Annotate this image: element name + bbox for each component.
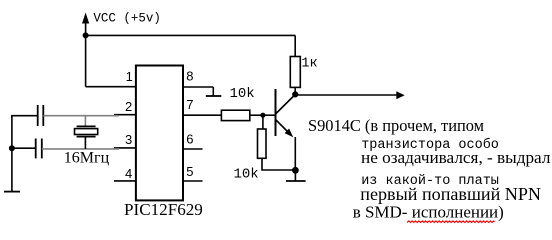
node emitter ground junction — [292, 167, 299, 174]
svg-text:7: 7 — [186, 97, 193, 112]
wire 1k top lead — [294, 35, 296, 56]
node base junction — [260, 113, 265, 118]
ground left — [4, 191, 20, 193]
ground pin 8 — [206, 87, 222, 96]
resistor R2 10k base — [221, 110, 249, 120]
svg-text:не озадачивался, - выдрал: не озадачивался, - выдрал — [361, 148, 551, 167]
svg-text:1к: 1к — [301, 56, 317, 71]
pin 2 stub — [114, 114, 136, 116]
svg-text:S9014C (в прочем, типом: S9014C (в прочем, типом — [308, 116, 484, 135]
wire VCC vertical to pin1 — [85, 35, 87, 86]
wire R3 bottom lead — [262, 158, 295, 170]
svg-text:5: 5 — [186, 164, 193, 179]
pin 7 stub — [183, 114, 221, 116]
svg-text:в SMD- исполнении): в SMD- исполнении) — [353, 203, 504, 222]
ground emitter — [286, 170, 306, 181]
svg-text:3: 3 — [125, 132, 132, 147]
wire C1 to pin 2 grey — [43, 115, 119, 117]
wire to C2 — [12, 147, 36, 149]
wire R3 top lead — [262, 115, 264, 129]
svg-text:первый попавший NPN: первый попавший NPN — [360, 184, 541, 204]
transistor Q1 base bar — [275, 89, 277, 136]
wire output with arrow — [295, 91, 405, 99]
wire to C1 — [11, 115, 38, 117]
wire VCC horizontal rail — [85, 34, 295, 36]
wire R2 to base node — [250, 114, 263, 116]
pin 5 stub — [183, 180, 203, 182]
wire emitter down — [294, 137, 296, 170]
pin 3 stub — [114, 147, 136, 149]
power symbol VCC arrow — [82, 13, 89, 36]
svg-text:2: 2 — [125, 99, 132, 114]
svg-text:PIC12F629: PIC12F629 — [124, 200, 203, 219]
svg-text:10k: 10k — [234, 167, 259, 183]
transistor Q1 emitter with arrow — [276, 120, 293, 137]
IC U1 PIC12F629 body — [136, 66, 183, 201]
svg-text:VCC (+5v): VCC (+5v) — [93, 12, 161, 26]
node collector junction — [292, 91, 298, 97]
crystal X1 — [75, 126, 98, 136]
pin 4 stub — [114, 180, 136, 182]
svg-text:16Мгц: 16Мгц — [64, 150, 110, 167]
svg-text:6: 6 — [186, 132, 193, 147]
capacitor C2 — [36, 139, 42, 159]
resistor R1 1k — [290, 57, 300, 88]
wire crystal top lead grey — [84, 116, 86, 127]
wire 1k bottom lead — [294, 87, 296, 94]
svg-text:4: 4 — [125, 166, 132, 181]
wire base node to transistor — [263, 114, 276, 116]
pin 8 stub — [183, 86, 213, 88]
transistor Q1 collector — [276, 95, 295, 114]
wire crystal bottom lead — [84, 137, 86, 149]
svg-text:10k: 10k — [230, 86, 255, 102]
wire C2 to pin 3 grey — [42, 148, 119, 150]
wire pin 1 to VCC — [86, 86, 136, 88]
pin 6 stub — [183, 148, 203, 150]
capacitor C1 — [38, 105, 44, 126]
resistor R3 10k — [258, 129, 267, 158]
node VCC junction — [83, 32, 89, 38]
svg-text:1: 1 — [126, 69, 133, 84]
svg-text:8: 8 — [186, 69, 193, 84]
node left junction — [9, 145, 15, 151]
spellcheck squiggle — [407, 221, 495, 223]
wire left rail — [11, 116, 13, 192]
